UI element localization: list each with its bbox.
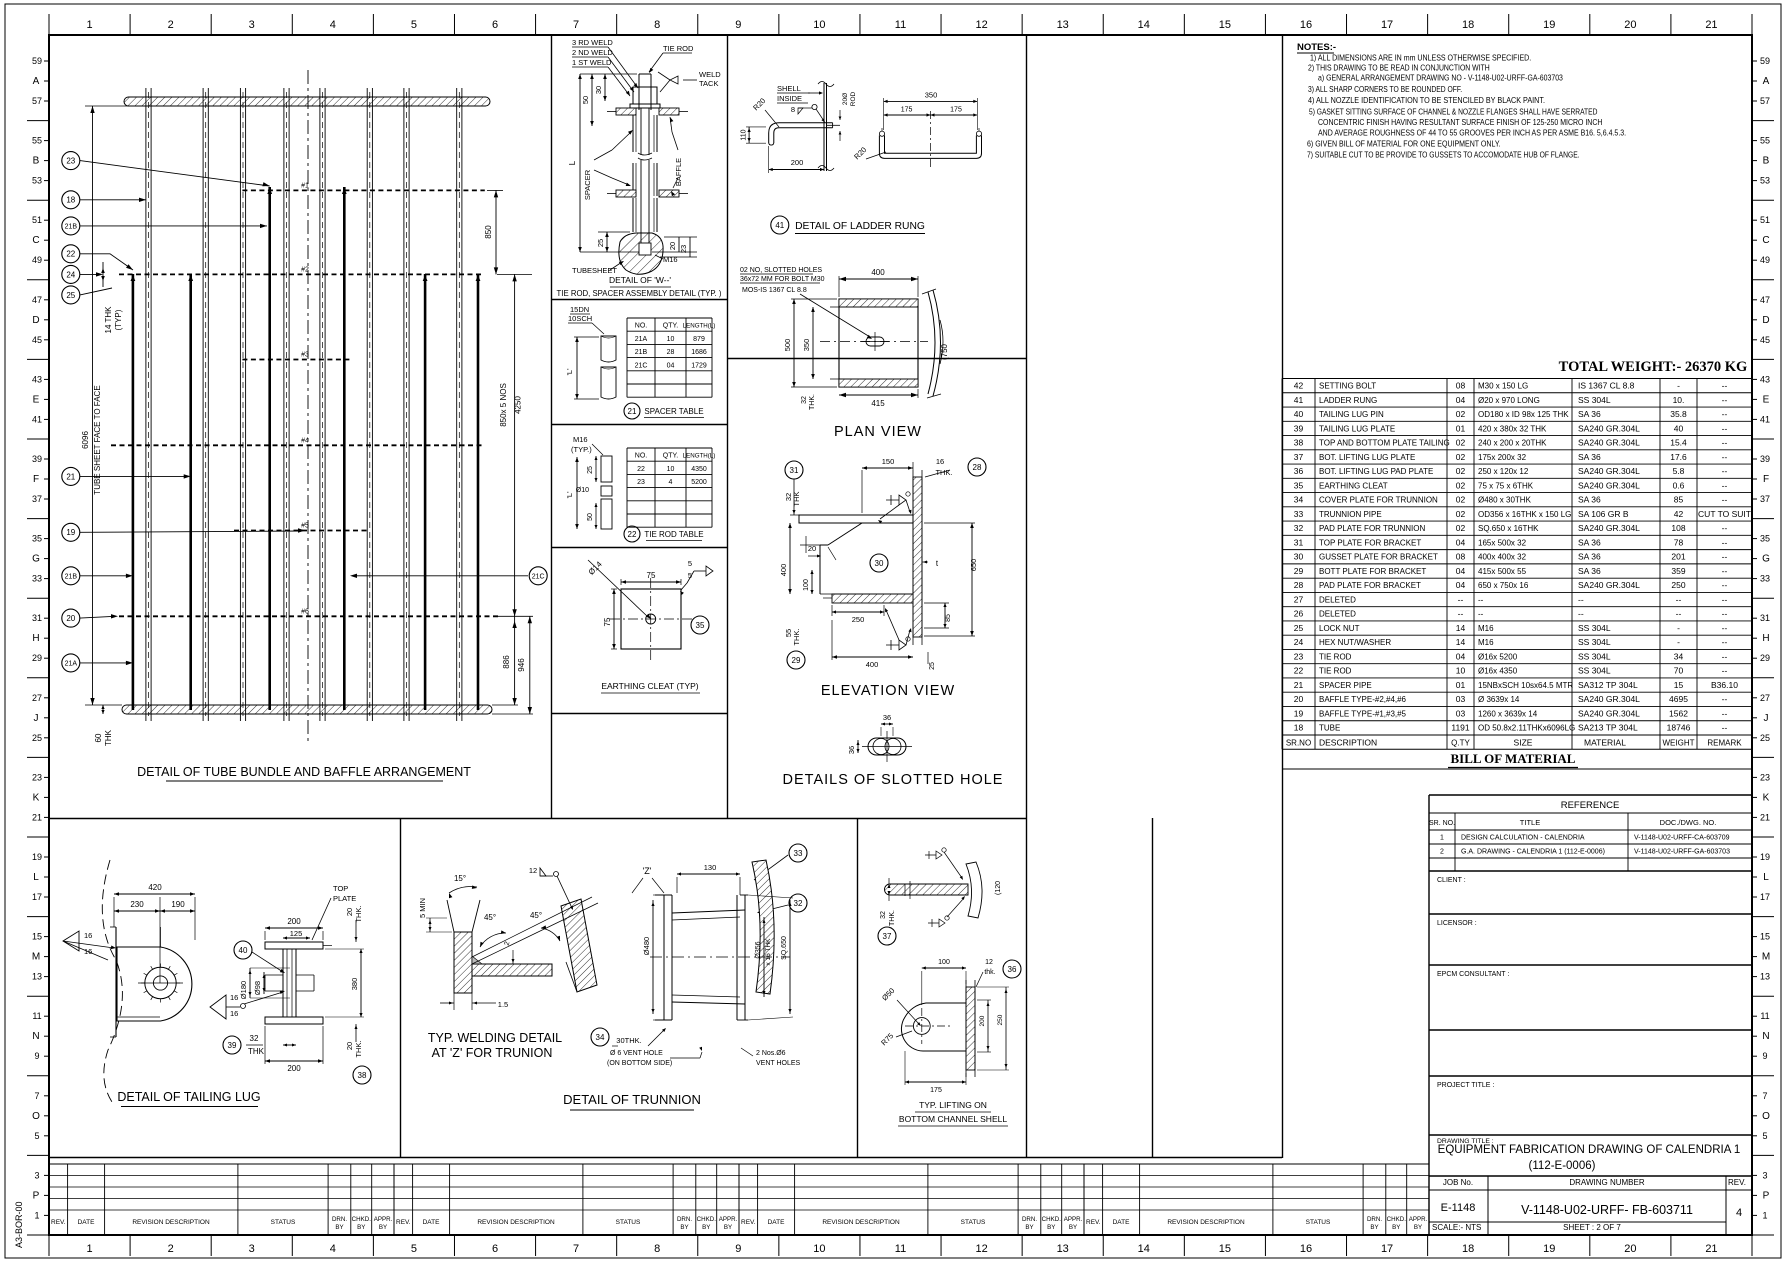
svg-text:--: -- xyxy=(1578,594,1584,604)
svg-text:Ø180: Ø180 xyxy=(239,981,248,999)
svg-text:36: 36 xyxy=(883,713,891,722)
svg-text:08: 08 xyxy=(1456,552,1466,562)
svg-text:22: 22 xyxy=(637,466,645,473)
svg-text:3) ALL SHARP CORNERS TO BE ROU: 3) ALL SHARP CORNERS TO BE ROUNDED OFF. xyxy=(1308,85,1462,94)
svg-text:TUBESHEET: TUBESHEET xyxy=(572,266,617,275)
svg-text:420: 420 xyxy=(148,883,162,892)
svg-text:V-1148-U02-URFF- FB-603711: V-1148-U02-URFF- FB-603711 xyxy=(1521,1203,1693,1217)
svg-text:21: 21 xyxy=(66,472,75,481)
svg-text:14: 14 xyxy=(1138,19,1150,31)
bottom plate xyxy=(832,594,913,603)
svg-text:OD356 x 16THK x 150 LG: OD356 x 16THK x 150 LG xyxy=(1478,510,1571,519)
plan plate xyxy=(839,299,918,387)
svg-text:230: 230 xyxy=(130,900,144,909)
svg-text:14 THK: 14 THK xyxy=(104,306,113,334)
svg-text:--: -- xyxy=(1722,466,1728,476)
weld sym top xyxy=(886,495,899,505)
svg-text:#6: #6 xyxy=(301,608,309,615)
svg-text:2) THIS DRAWING TO BE READ IN: 2) THIS DRAWING TO BE READ IN CONJUNCTIO… xyxy=(1308,64,1490,73)
svg-text:NOTES:-: NOTES:- xyxy=(1297,42,1336,53)
svg-text:THK.: THK. xyxy=(354,1040,363,1057)
svg-text:85: 85 xyxy=(1674,495,1684,505)
svg-text:19: 19 xyxy=(1760,852,1770,862)
svg-text:10: 10 xyxy=(667,466,675,473)
svg-text:30THK.: 30THK. xyxy=(616,1036,641,1045)
svg-text:15: 15 xyxy=(1219,19,1231,31)
svg-text:'L': 'L' xyxy=(565,368,574,376)
baffle bar lower xyxy=(616,190,636,197)
svg-text:TUBE: TUBE xyxy=(1319,724,1340,733)
dim 100 xyxy=(811,570,813,594)
svg-text:75: 75 xyxy=(647,571,656,580)
svg-text:13: 13 xyxy=(1057,19,1069,31)
svg-text:REVISION DESCRIPTION: REVISION DESCRIPTION xyxy=(477,1219,555,1226)
section web xyxy=(282,949,284,1017)
svg-text:32: 32 xyxy=(801,396,808,404)
svg-text:10: 10 xyxy=(813,19,825,31)
tubes xyxy=(146,88,462,721)
svg-text:TOTAL WEIGHT:- 26370 KG: TOTAL WEIGHT:- 26370 KG xyxy=(1559,359,1748,375)
dim 130 xyxy=(677,873,740,875)
svg-text:27: 27 xyxy=(1294,594,1304,604)
svg-text:BY: BY xyxy=(1025,1224,1033,1231)
trunnion centerline xyxy=(650,956,790,958)
svg-text:SA240 GR.304L: SA240 GR.304L xyxy=(1578,466,1640,476)
svg-text:--: -- xyxy=(1722,623,1728,633)
svg-text:--: -- xyxy=(1722,637,1728,647)
svg-text:21B: 21B xyxy=(65,223,78,230)
svg-text:201: 201 xyxy=(1671,552,1685,562)
dim 36 top xyxy=(881,723,893,725)
cleat square xyxy=(621,589,681,649)
svg-text:17: 17 xyxy=(1381,19,1393,31)
svg-text:22: 22 xyxy=(1294,666,1304,676)
svg-text:29: 29 xyxy=(792,656,801,665)
balloon 35 xyxy=(691,616,709,634)
svg-text:--: -- xyxy=(1458,609,1464,619)
svg-text:TAILING LUG PLATE: TAILING LUG PLATE xyxy=(1319,424,1395,433)
balloon 21A xyxy=(62,654,80,672)
dim 420 xyxy=(114,893,195,895)
svg-text:SIZE: SIZE xyxy=(1514,738,1533,748)
svg-text:BY: BY xyxy=(680,1224,688,1231)
svg-text:30: 30 xyxy=(594,86,603,94)
svg-text:BOT. LIFTING LUG PAD PLATE: BOT. LIFTING LUG PAD PLATE xyxy=(1319,467,1433,476)
svg-text:--: -- xyxy=(1722,651,1728,661)
svg-text:21: 21 xyxy=(1760,812,1770,822)
svg-text:14: 14 xyxy=(1138,1243,1150,1255)
svg-text:21B: 21B xyxy=(635,349,648,356)
svg-text:-: - xyxy=(1677,381,1680,391)
svg-text:SA 36: SA 36 xyxy=(1578,495,1601,505)
ladder rung bent detail xyxy=(741,82,982,235)
svg-text:31: 31 xyxy=(32,613,42,623)
svg-text:39: 39 xyxy=(1760,454,1770,464)
svg-text:--: -- xyxy=(1722,495,1728,505)
svg-text:ELEVATION VIEW: ELEVATION VIEW xyxy=(821,683,955,699)
washer xyxy=(630,104,660,108)
svg-text:21: 21 xyxy=(1705,19,1717,31)
svg-text:QTY.: QTY. xyxy=(663,323,678,330)
svg-text:REVISION DESCRIPTION: REVISION DESCRIPTION xyxy=(1167,1219,1245,1226)
svg-text:400: 400 xyxy=(866,660,879,669)
svg-text:2 Nos.Ø6: 2 Nos.Ø6 xyxy=(756,1050,786,1057)
svg-text:SA240 GR.304L: SA240 GR.304L xyxy=(1578,523,1640,533)
svg-text:#4: #4 xyxy=(301,437,309,444)
vertical plate hatched xyxy=(454,932,472,993)
svg-text:40: 40 xyxy=(1294,409,1304,419)
svg-text:DETAIL OF 'W--': DETAIL OF 'W--' xyxy=(609,275,671,285)
svg-text:BY: BY xyxy=(724,1224,732,1231)
svg-text:M: M xyxy=(32,952,40,963)
svg-text:IS 1367 CL 8.8: IS 1367 CL 8.8 xyxy=(1578,381,1635,391)
dim 75 vertical xyxy=(611,588,617,590)
plan view drawing xyxy=(783,268,949,440)
svg-text:SS 304L: SS 304L xyxy=(1578,623,1611,633)
spacer upper segment xyxy=(632,115,634,152)
dim 85 xyxy=(944,603,946,628)
svg-text:O: O xyxy=(32,1111,40,1122)
svg-text:TOP: TOP xyxy=(333,884,348,893)
svg-text:BY: BY xyxy=(1414,1224,1422,1231)
baffle lines xyxy=(111,182,501,616)
svg-text:M16: M16 xyxy=(1478,638,1494,647)
lug hole xyxy=(145,967,176,998)
svg-text:OD180 x ID 98x 125 THK: OD180 x ID 98x 125 THK xyxy=(1478,410,1569,419)
shell curve top xyxy=(966,862,982,918)
svg-text:BY: BY xyxy=(1370,1224,1378,1231)
svg-text:34: 34 xyxy=(1294,495,1304,505)
svg-text:--: -- xyxy=(1722,566,1728,576)
svg-text:7) SUITABLE CUT TO BE PROVIDE: 7) SUITABLE CUT TO BE PROVIDE TO GUSSETS… xyxy=(1307,151,1580,160)
svg-text:42: 42 xyxy=(1674,509,1684,519)
svg-text:2: 2 xyxy=(168,19,174,31)
tailing lug front view xyxy=(63,860,195,1102)
svg-text:THK.: THK. xyxy=(354,905,363,922)
svg-text:4: 4 xyxy=(1736,1207,1742,1219)
dim 200 bottom xyxy=(265,1060,323,1062)
svg-text:15NBxSCH 10sx64.5 MTR: 15NBxSCH 10sx64.5 MTR xyxy=(1478,681,1573,690)
svg-text:P: P xyxy=(33,1190,40,1201)
svg-text:21: 21 xyxy=(1705,1243,1717,1255)
svg-text:45°: 45° xyxy=(530,911,542,920)
svg-text:32: 32 xyxy=(250,1034,259,1043)
svg-text:33: 33 xyxy=(1760,574,1770,584)
top tubesheet bar xyxy=(124,97,490,106)
tie rod table grid xyxy=(627,448,715,527)
svg-text:DRN.: DRN. xyxy=(1022,1216,1037,1223)
svg-text:Ø10: Ø10 xyxy=(576,487,589,494)
dim 400 left xyxy=(789,523,791,594)
dim 110 xyxy=(748,127,750,143)
lug plate edge xyxy=(115,927,117,1037)
svg-text:--: -- xyxy=(1722,666,1728,676)
svg-text:12: 12 xyxy=(529,866,537,875)
svg-text:175x 200x 32: 175x 200x 32 xyxy=(1478,453,1527,462)
svg-text:INSIDE: INSIDE xyxy=(777,94,802,103)
svg-text:19: 19 xyxy=(32,852,42,862)
svg-text:20: 20 xyxy=(1294,694,1304,704)
svg-text:1191: 1191 xyxy=(1451,723,1470,733)
svg-text:19: 19 xyxy=(1543,1243,1555,1255)
balloon 21B lower xyxy=(62,567,80,585)
svg-text:THK.: THK. xyxy=(935,468,952,477)
svg-text:SR. NO.: SR. NO. xyxy=(1429,820,1455,827)
svg-text:51: 51 xyxy=(1760,215,1770,225)
svg-text:8: 8 xyxy=(791,105,795,114)
svg-text:LENGTH(L): LENGTH(L) xyxy=(683,453,716,460)
svg-text:75: 75 xyxy=(603,617,612,626)
svg-text:REVISION DESCRIPTION: REVISION DESCRIPTION xyxy=(132,1219,210,1226)
svg-text:1260 x 3639x 14: 1260 x 3639x 14 xyxy=(1478,709,1538,718)
svg-text:SA 36: SA 36 xyxy=(1578,409,1601,419)
svg-text:5200: 5200 xyxy=(691,479,707,486)
svg-text:L: L xyxy=(33,872,39,883)
svg-text:--: -- xyxy=(1722,395,1728,405)
svg-text:'Z': 'Z' xyxy=(643,866,652,876)
right angled plate hatched xyxy=(561,899,597,992)
svg-text:PLAN VIEW: PLAN VIEW xyxy=(834,424,922,440)
svg-text:BOTTOM CHANNEL SHELL: BOTTOM CHANNEL SHELL xyxy=(899,1114,1007,1124)
svg-text:DETAIL OF TAILING LUG: DETAIL OF TAILING LUG xyxy=(117,1090,260,1104)
svg-text:34: 34 xyxy=(1674,651,1684,661)
svg-text:SA 36: SA 36 xyxy=(1578,566,1601,576)
svg-text:SA 106 GR B: SA 106 GR B xyxy=(1578,509,1629,519)
svg-text:2: 2 xyxy=(168,1243,174,1255)
svg-text:59: 59 xyxy=(1760,56,1770,66)
balloon 20 xyxy=(62,609,80,627)
svg-text:STATUS: STATUS xyxy=(271,1219,296,1226)
svg-text:29: 29 xyxy=(1294,566,1304,576)
svg-text:879: 879 xyxy=(693,336,705,343)
svg-text:12: 12 xyxy=(975,1243,987,1255)
hex nut xyxy=(633,87,657,104)
section top plate xyxy=(265,942,323,949)
top coordinate band xyxy=(49,14,1752,35)
svg-text:02: 02 xyxy=(1456,480,1466,490)
svg-text:TUBE SHEET FACE TO FACE: TUBE SHEET FACE TO FACE xyxy=(93,385,102,494)
svg-text:APPR.: APPR. xyxy=(719,1216,738,1223)
svg-text:DETAIL OF TRUNNION: DETAIL OF TRUNNION xyxy=(563,1092,701,1107)
svg-text:TAILING LUG PIN: TAILING LUG PIN xyxy=(1319,410,1384,419)
svg-text:Ø480 x 30THK: Ø480 x 30THK xyxy=(1478,496,1532,505)
dim 415 plan xyxy=(839,394,918,396)
notes text xyxy=(1297,42,1626,160)
svg-text:28: 28 xyxy=(973,463,982,472)
svg-text:42: 42 xyxy=(1294,381,1304,391)
weld fillet triangles xyxy=(472,956,482,964)
vertical centerline xyxy=(307,70,309,745)
svg-text:37: 37 xyxy=(883,932,892,941)
svg-text:47: 47 xyxy=(1760,295,1770,305)
svg-text:TOP AND BOTTOM PLATE TAILING: TOP AND BOTTOM PLATE TAILING xyxy=(1319,439,1450,448)
svg-text:3 RD WELD: 3 RD WELD xyxy=(572,38,613,47)
svg-text:--: -- xyxy=(1722,537,1728,547)
svg-text:110: 110 xyxy=(741,129,748,140)
svg-text:REV.: REV. xyxy=(396,1219,411,1226)
tie rod table caption xyxy=(624,526,640,542)
svg-text:70: 70 xyxy=(1674,666,1684,676)
svg-text:1: 1 xyxy=(1440,835,1444,842)
svg-text:BY: BY xyxy=(702,1224,710,1231)
shell plate curved hatched xyxy=(752,860,774,994)
svg-text:0.6: 0.6 xyxy=(1673,480,1685,490)
svg-text:9: 9 xyxy=(1762,1051,1767,1061)
spacer lower segment xyxy=(632,163,634,196)
svg-text:400: 400 xyxy=(779,564,788,577)
svg-text:31: 31 xyxy=(790,466,799,475)
svg-text:AND AVERAGE ROUGHNESS OF 44 TO: AND AVERAGE ROUGHNESS OF 44 TO 55 GROOVE… xyxy=(1318,129,1626,138)
svg-text:04: 04 xyxy=(1456,566,1466,576)
horizontal plate hatched xyxy=(472,964,552,976)
svg-text:DOC./DWG. NO.: DOC./DWG. NO. xyxy=(1660,818,1717,827)
balloon 25 xyxy=(62,286,80,304)
ladder rung title xyxy=(771,216,789,234)
dim L xyxy=(579,74,581,252)
svg-text:13: 13 xyxy=(1057,1243,1069,1255)
svg-text:29: 29 xyxy=(1760,653,1770,663)
svg-text:CHKD.: CHKD. xyxy=(352,1216,372,1223)
dim 850 between baffles xyxy=(495,190,497,274)
svg-text:TYP. LIFTING ON: TYP. LIFTING ON xyxy=(919,1100,987,1110)
svg-text:49: 49 xyxy=(1760,255,1770,265)
svg-text:200: 200 xyxy=(287,1064,301,1073)
svg-text:PAD PLATE FOR BRACKET: PAD PLATE FOR BRACKET xyxy=(1319,581,1421,590)
dim 30 xyxy=(604,74,606,101)
svg-text:A: A xyxy=(1763,76,1770,87)
lifting lug bottom detail xyxy=(879,959,1021,1126)
svg-text:--: -- xyxy=(1676,609,1682,619)
svg-text:Ø 6 VENT HOLE: Ø 6 VENT HOLE xyxy=(610,1050,663,1057)
svg-text:49: 49 xyxy=(32,255,42,265)
tie rod shaft xyxy=(638,74,640,110)
svg-text:TOP PLATE FOR BRACKET: TOP PLATE FOR BRACKET xyxy=(1319,538,1421,547)
svg-text:--: -- xyxy=(1722,480,1728,490)
svg-text:40: 40 xyxy=(239,946,248,955)
svg-text:TIE ROD: TIE ROD xyxy=(663,44,694,53)
svg-text:175: 175 xyxy=(950,107,962,114)
svg-text:165x 500x 32: 165x 500x 32 xyxy=(1478,538,1527,547)
lifting plate top xyxy=(885,884,968,895)
svg-text:SQ.650: SQ.650 xyxy=(781,936,788,960)
svg-text:32: 32 xyxy=(880,911,887,919)
svg-text:3: 3 xyxy=(249,1243,255,1255)
svg-text:16: 16 xyxy=(1300,19,1312,31)
svg-text:57: 57 xyxy=(1760,96,1770,106)
svg-text:E: E xyxy=(1763,394,1770,405)
svg-text:--: -- xyxy=(1676,594,1682,604)
revision tables xyxy=(49,1164,1429,1235)
svg-text:5: 5 xyxy=(1762,1131,1767,1141)
svg-text:1.5: 1.5 xyxy=(498,1000,508,1009)
svg-text:a) GENERAL ARRANGEMENT DRAWIN: a) GENERAL ARRANGEMENT DRAWING NO - V-11… xyxy=(1318,74,1563,83)
svg-text:04: 04 xyxy=(1456,580,1466,590)
svg-text:M16: M16 xyxy=(663,255,678,264)
svg-text:J: J xyxy=(34,713,39,724)
svg-text:1) ALL DIMENSIONS ARE IN mm U: 1) ALL DIMENSIONS ARE IN mm UNLESS OTHER… xyxy=(1310,54,1531,63)
svg-text:#3: #3 xyxy=(301,352,309,359)
svg-text:50: 50 xyxy=(587,513,594,521)
svg-text:QTY.: QTY. xyxy=(663,453,678,460)
svg-text:25: 25 xyxy=(66,291,75,300)
svg-text:15°: 15° xyxy=(454,874,466,883)
spacer table caption xyxy=(624,403,640,419)
svg-text:CONCENTRIC FINISH HAVING RESU: CONCENTRIC FINISH HAVING RESULTANT SURFA… xyxy=(1318,118,1602,127)
svg-text:415x 500x 55: 415x 500x 55 xyxy=(1478,567,1527,576)
spacer table grid xyxy=(627,318,715,397)
balloon 21 xyxy=(62,467,80,485)
svg-text:B36.10: B36.10 xyxy=(1711,680,1738,690)
section mid flanges xyxy=(265,974,283,976)
svg-text:20: 20 xyxy=(345,908,354,916)
svg-text:34: 34 xyxy=(596,1033,605,1042)
svg-text:TITLE: TITLE xyxy=(1520,818,1540,827)
svg-text:20: 20 xyxy=(1624,19,1636,31)
bent rod xyxy=(769,123,833,143)
svg-text:Ø356: Ø356 xyxy=(755,941,762,958)
svg-text:EARTHING CLEAT (TYP): EARTHING CLEAT (TYP) xyxy=(601,681,698,691)
svg-text:CHKD.: CHKD. xyxy=(697,1216,717,1223)
svg-text:22: 22 xyxy=(66,250,75,259)
dim 20 xyxy=(805,536,807,553)
svg-text:GUSSET PLATE FOR BRACKET: GUSSET PLATE FOR BRACKET xyxy=(1319,553,1438,562)
svg-text:15DN: 15DN xyxy=(570,305,589,314)
svg-text:--: -- xyxy=(1578,609,1584,619)
svg-text:35: 35 xyxy=(696,621,705,630)
svg-text:3: 3 xyxy=(1762,1170,1767,1180)
svg-text:V-1148-U02-URFF-CA-603709: V-1148-U02-URFF-CA-603709 xyxy=(1634,835,1730,842)
svg-text:E: E xyxy=(33,394,40,405)
svg-text:9: 9 xyxy=(735,19,741,31)
svg-text:20Ø: 20Ø xyxy=(842,93,849,105)
svg-text:36: 36 xyxy=(1294,466,1304,476)
svg-text:75 x 75 x 6THK: 75 x 75 x 6THK xyxy=(1478,481,1534,490)
tube bundle and baffle arrangement view xyxy=(81,70,533,746)
svg-text:BAFFLE: BAFFLE xyxy=(674,158,683,186)
dim 50 xyxy=(591,74,593,126)
rod break xyxy=(638,153,652,160)
svg-text:#5: #5 xyxy=(301,523,309,530)
svg-text:57: 57 xyxy=(32,96,42,106)
svg-text:3: 3 xyxy=(249,19,255,31)
svg-text:37: 37 xyxy=(32,494,42,504)
svg-text:MATERIAL: MATERIAL xyxy=(1584,738,1626,748)
svg-text:LADDER RUNG: LADDER RUNG xyxy=(1319,396,1377,405)
svg-text:DESIGN CALCULATION - CALENDR: DESIGN CALCULATION - CALENDRIA xyxy=(1461,835,1585,842)
svg-text:23: 23 xyxy=(637,479,645,486)
svg-text:130: 130 xyxy=(704,863,717,872)
trunnion detail view xyxy=(563,844,807,1110)
tie rod figure xyxy=(565,435,612,529)
svg-text:250: 250 xyxy=(997,1014,1004,1025)
svg-text:21C: 21C xyxy=(532,573,545,580)
svg-text:STATUS: STATUS xyxy=(616,1219,641,1226)
svg-text:LICENSOR :: LICENSOR : xyxy=(1437,920,1477,927)
svg-text:53: 53 xyxy=(32,176,42,186)
dim 150 xyxy=(862,467,913,469)
svg-text:SA240 GR.304L: SA240 GR.304L xyxy=(1578,438,1640,448)
dim 400 bottom xyxy=(832,656,913,658)
svg-text:P: P xyxy=(1763,1190,1770,1201)
balloon 21B xyxy=(62,217,80,235)
svg-text:--: -- xyxy=(1722,708,1728,718)
svg-text:15.4: 15.4 xyxy=(1670,438,1687,448)
svg-text:21A: 21A xyxy=(65,660,78,667)
svg-text:85: 85 xyxy=(945,614,952,622)
tie rods xyxy=(131,187,481,710)
svg-text:33: 33 xyxy=(1294,509,1304,519)
elevation view drawing xyxy=(779,457,986,699)
